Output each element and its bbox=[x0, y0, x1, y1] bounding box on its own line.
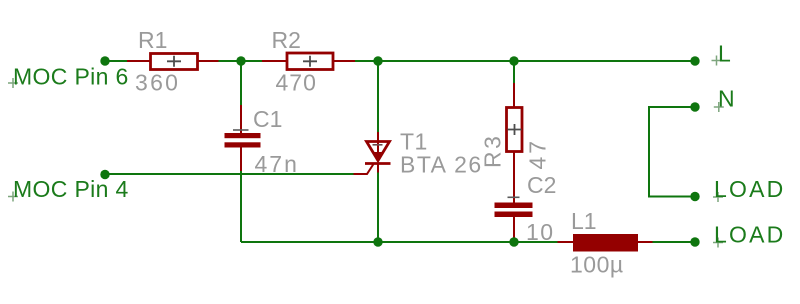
svg-text:470: 470 bbox=[276, 70, 317, 96]
svg-text:47n: 47n bbox=[255, 151, 299, 177]
svg-text:R2: R2 bbox=[272, 27, 301, 53]
svg-text:L: L bbox=[718, 41, 731, 67]
svg-text:R3: R3 bbox=[480, 134, 506, 168]
svg-text:MOC Pin 6: MOC Pin 6 bbox=[13, 64, 129, 90]
svg-text:360: 360 bbox=[135, 70, 180, 96]
svg-text:LOAD: LOAD bbox=[714, 222, 785, 248]
svg-text:47: 47 bbox=[525, 138, 551, 170]
svg-text:100µ: 100µ bbox=[570, 252, 624, 278]
svg-text:10: 10 bbox=[526, 219, 555, 245]
svg-text:LOAD: LOAD bbox=[714, 176, 785, 202]
svg-text:MOC Pin 4: MOC Pin 4 bbox=[13, 176, 129, 202]
svg-text:N: N bbox=[718, 86, 735, 112]
svg-text:BTA 26: BTA 26 bbox=[400, 152, 483, 178]
svg-text:C2: C2 bbox=[527, 172, 556, 198]
svg-text:C1: C1 bbox=[253, 106, 282, 132]
svg-text:L1: L1 bbox=[571, 208, 597, 234]
svg-text:R1: R1 bbox=[138, 27, 167, 53]
